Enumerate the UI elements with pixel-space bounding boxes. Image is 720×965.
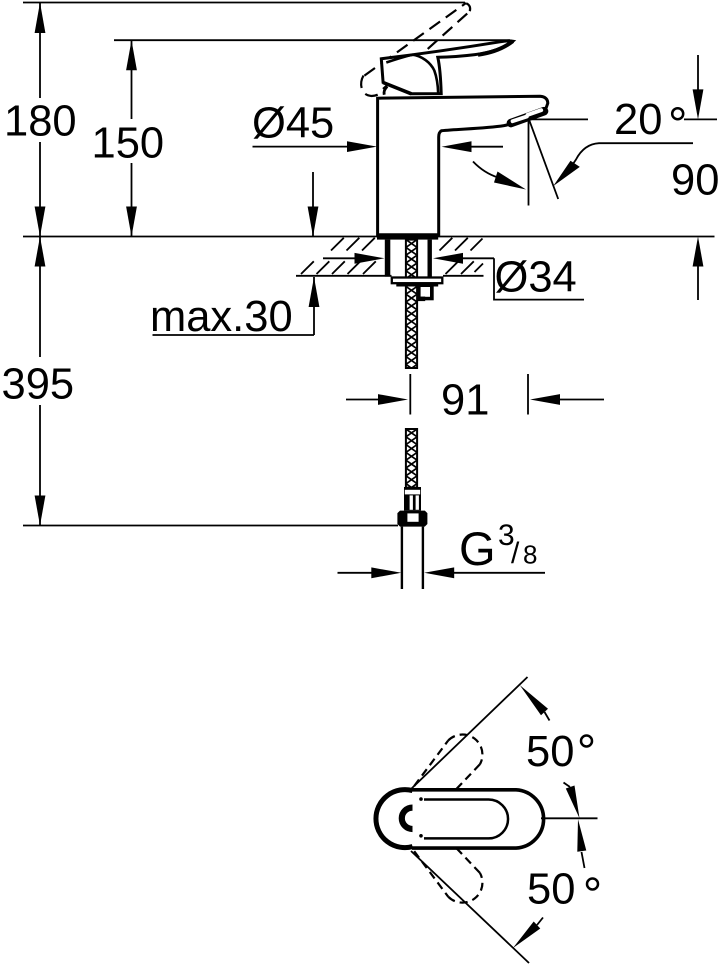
dimension line dia45	[253, 146, 351, 148]
wire counter bottom line right	[443, 275, 484, 277]
dimension line dia34	[323, 257, 357, 259]
body circle	[376, 790, 413, 848]
arrowhead 91 left	[378, 394, 408, 405]
lever capsule inner	[424, 800, 508, 839]
aerator bar	[511, 111, 544, 123]
faucet body outline	[378, 96, 548, 235]
mounting nut band	[396, 283, 438, 286]
dimension line G3/8	[338, 572, 375, 574]
hub ball arc	[384, 86, 387, 94]
wire spout 20deg slant line	[529, 120, 558, 200]
arrowhead 180 top	[35, 3, 46, 34]
lever swivel dashed capsule upper	[414, 735, 482, 791]
lever tip underside thick edge	[478, 41, 513, 55]
supply pipe	[401, 527, 403, 589]
hose ferrule	[404, 487, 421, 511]
arrowhead dia45 left	[347, 141, 377, 152]
arrowhead angle arc left	[494, 172, 526, 190]
svg-text:/: /	[511, 537, 520, 570]
wire 50 lower centerline tail	[582, 852, 585, 868]
raised lever hub dashes	[410, 81, 429, 93]
arrowhead dia34 right	[433, 253, 463, 264]
arrowhead 395 bottom	[35, 496, 46, 526]
arrowhead 90 upper	[693, 89, 704, 119]
arrowhead 50 upper line	[520, 685, 548, 715]
wire counter bottom line left	[296, 275, 392, 277]
arrowhead dia45 right	[442, 141, 472, 152]
dimension line 395	[39, 237, 41, 358]
arrowhead 395 top	[35, 237, 46, 267]
arrowhead G38 left	[371, 567, 401, 578]
svg-text:150: 150	[92, 120, 165, 168]
butt bottom slant reinforcing	[383, 83, 411, 94]
lever raised dashed outline	[361, 3, 470, 96]
dimension line max30 lower + leader	[313, 277, 315, 335]
svg-text:91: 91	[441, 377, 489, 425]
arrowhead G38 right	[424, 567, 454, 578]
cartridge blob	[402, 808, 413, 829]
lever hub contour	[413, 55, 439, 94]
node dot upper	[419, 797, 423, 801]
aerator capsule window lower	[513, 117, 527, 122]
lever capsule outer	[412, 790, 544, 848]
wire counter top reference line left	[23, 236, 378, 238]
wire extension line 150	[114, 39, 510, 41]
dimension line 150	[131, 40, 133, 119]
svg-text:395: 395	[2, 361, 75, 409]
arrowhead 50 upper at centerline	[566, 786, 580, 819]
arrowhead dia34 left	[355, 253, 385, 264]
svg-text:50: 50	[527, 866, 575, 914]
arrowhead 50 lower at centerline	[577, 819, 586, 852]
aerator capsule window upper	[528, 110, 542, 115]
stud block	[417, 285, 434, 301]
arrowhead 150 bottom	[126, 207, 137, 237]
arrowhead max30 upper	[308, 207, 319, 237]
svg-text:Ø45: Ø45	[252, 100, 334, 148]
wire counter top reference line right	[438, 236, 715, 238]
faucet base band	[377, 235, 438, 240]
wire 20deg leader shelf	[573, 143, 693, 163]
braided hose lower segment	[406, 429, 417, 488]
dimension line 180	[39, 3, 41, 99]
swivel line 50 upper	[410, 677, 528, 790]
svg-text:max.30: max.30	[150, 293, 293, 341]
wire top extension line 180	[23, 2, 465, 4]
lever blade underside edge	[386, 55, 412, 63]
node dot lower	[419, 834, 423, 838]
wire 50 upper centerline tail	[564, 783, 571, 788]
arrowhead 90 lower	[693, 237, 704, 267]
dimension line 90	[697, 55, 699, 92]
braided hose upper segment	[406, 240, 417, 368]
node 91 extension ticks	[409, 374, 411, 415]
counter hatching	[301, 238, 483, 274]
svg-text:90: 90	[671, 157, 719, 205]
svg-text:50: 50	[526, 728, 574, 776]
wire spout vertical reference	[528, 121, 530, 206]
svg-text:20: 20	[614, 96, 662, 144]
arrowhead angle arc right	[553, 161, 580, 186]
svg-text:8: 8	[523, 539, 537, 569]
lever swivel dashed capsule lower	[414, 847, 482, 903]
arrowhead 180 bottom	[35, 207, 46, 237]
shank wall right	[428, 240, 432, 277]
arrowhead 50 lower line	[513, 922, 540, 949]
lever solid	[381, 41, 513, 94]
wire bottom reference line 395	[23, 525, 398, 527]
swivel line 50 lower	[411, 851, 529, 963]
svg-text:Ø34: Ø34	[495, 254, 577, 302]
wire angle arc left	[473, 162, 498, 178]
hose connection nut G3/8	[397, 511, 427, 527]
svg-text:180: 180	[4, 98, 77, 146]
arrowhead max30 lower	[309, 277, 320, 307]
wire dia34 leader	[494, 258, 584, 299]
wire 50 lower tail	[537, 918, 543, 926]
arrowhead 150 top	[126, 40, 137, 70]
wire centerline right	[541, 817, 598, 819]
dimension line 91	[346, 399, 381, 401]
wire 50 upper tail	[545, 712, 550, 721]
washer	[392, 278, 443, 284]
svg-text:G: G	[459, 522, 496, 575]
wire spout height reference line	[529, 118, 589, 120]
dimension line max30 upper	[312, 172, 314, 237]
arrowhead 91 right	[530, 394, 560, 405]
shank wall left	[385, 240, 391, 277]
